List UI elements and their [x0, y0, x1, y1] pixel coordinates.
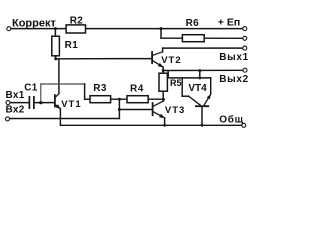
wire VT3 base row [119, 109, 151, 111]
terminal Bx1 [6, 101, 10, 105]
terminal Bx2 [6, 117, 10, 121]
wire Vyh2 row [163, 69, 242, 71]
wire Vyh2 drop left [167, 71, 169, 78]
wire R4 to node B [148, 98, 163, 100]
wire VT3 collector riser [163, 99, 165, 101]
node dot VT3 emitter-ground [163, 124, 166, 127]
wire Vyh1 row [163, 47, 243, 49]
svg-text:R3: R3 [93, 83, 107, 94]
svg-text:R1: R1 [65, 40, 79, 51]
wire top rail left of R2 [11, 28, 66, 30]
wire node A row R1 to VT2 base [55, 58, 152, 60]
transistor VT2 [152, 51, 163, 67]
wire R1 bottom stub [54, 56, 56, 59]
svg-text:R6: R6 [186, 18, 200, 29]
wire VT4 collector lead horizontal bottom [182, 95, 188, 97]
svg-text:Вх2: Вх2 [6, 104, 25, 115]
resistor R4 [127, 96, 148, 103]
terminal +Ep [243, 27, 247, 31]
svg-text:Общ: Общ [219, 113, 244, 125]
capacitor C1 [29, 96, 34, 109]
wire R6 row right to terminal [204, 37, 242, 39]
wire VT4 base drop [201, 107, 203, 125]
svg-text:VT2: VT2 [161, 55, 181, 66]
wire top rail R2 to +Ep [86, 28, 243, 30]
node dot R3-R4 [118, 98, 121, 101]
wire R6 row left [161, 37, 182, 39]
wire Bx1 to C1 [10, 102, 28, 104]
svg-text:Вых2: Вых2 [219, 74, 249, 85]
node dot VT3 base branch [118, 108, 121, 111]
resistor R5 [159, 73, 167, 91]
terminal Obshch [242, 123, 246, 127]
transistor VT1 [55, 94, 61, 109]
wire Bx2 row [10, 118, 119, 120]
svg-text:R4: R4 [130, 83, 144, 94]
wire branch to R3 drop [84, 84, 86, 99]
resistor R1 [52, 36, 60, 56]
terminal Korrekt [7, 27, 11, 31]
svg-text:C1: C1 [24, 83, 38, 94]
resistor R2 [66, 25, 85, 33]
wire Vyh2 drop right [199, 71, 201, 78]
terminal Vyh1 [243, 46, 247, 50]
svg-text:VT3: VT3 [165, 105, 185, 116]
wire VT2 emitter drop to R5 [162, 67, 164, 73]
resistor R3 [90, 96, 111, 103]
wire branch to R3 horizontal [41, 83, 85, 85]
transistor VT3 [153, 101, 165, 118]
wire VT2 base stub [150, 58, 153, 60]
wire VT1 emitter drop [59, 109, 61, 126]
wire ground rail [60, 124, 241, 126]
wire VT4 upper row [168, 77, 211, 79]
svg-text:VT1: VT1 [61, 99, 81, 110]
transistor VT4 [189, 94, 211, 106]
wire R1 drop from rail [54, 29, 56, 37]
node dot Vyh2 left [162, 69, 165, 72]
wire VT4 collector lead drop [181, 78, 183, 96]
node dot VT1 base / R3 feedback [39, 101, 42, 104]
node dot A VT1 collector tee [54, 57, 57, 60]
node dot VT4 base-ground [201, 124, 204, 127]
wire R3 feedback riser from VT1 base [40, 84, 42, 103]
svg-text:R5: R5 [170, 78, 182, 88]
wire VT1 collector riser [58, 59, 60, 94]
wire R3 to R4 [111, 98, 127, 100]
terminal Vyh2 [243, 68, 247, 72]
svg-text:+ Еп: + Еп [218, 16, 240, 28]
node dot rail-R6 [160, 27, 163, 30]
wire into R3 left [85, 98, 90, 100]
node dot VT4 emitter tee bottom [198, 76, 201, 79]
svg-text:VT4: VT4 [188, 83, 207, 94]
wire node C vertical x119 [118, 99, 120, 118]
node dot VT4 emitter tee top [198, 69, 201, 72]
wire VT4 emitter lead vertical [210, 78, 212, 94]
wire VT3 emitter drop [164, 118, 166, 125]
terminal R6 out [243, 36, 247, 40]
svg-text:R2: R2 [70, 15, 84, 26]
svg-text:Вх1: Вх1 [6, 90, 25, 101]
svg-text:Коррект: Коррект [12, 17, 56, 29]
node dot B R4-R5-VT3 [162, 98, 165, 101]
wire R6 drop from rail [160, 29, 162, 39]
wire R5 bottom to node B [162, 91, 164, 99]
svg-text:Вых1: Вых1 [219, 52, 249, 63]
wire C1 to VT1 base [35, 102, 55, 104]
node dot rail-R1 [54, 27, 57, 30]
resistor R6 [182, 35, 204, 42]
wire VT2 collector riser [162, 48, 164, 52]
